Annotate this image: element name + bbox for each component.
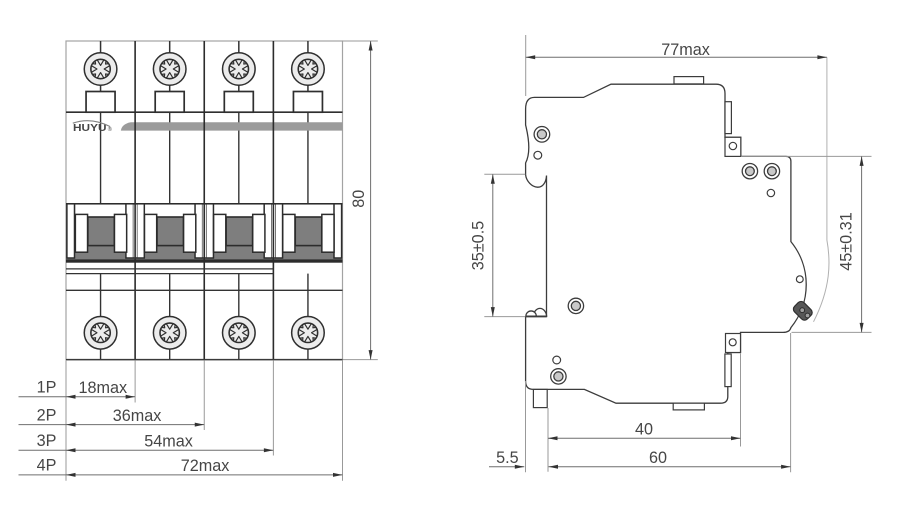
- lower section line: [66, 289, 343, 291]
- bottom right slot: [725, 354, 731, 387]
- bottom extension line 3: [272, 360, 274, 455]
- pole 3 toggle lever right tab: [253, 214, 265, 252]
- pin hole B: [767, 189, 774, 196]
- dimension 18max leader and line: [19, 379, 136, 399]
- top right square outline: [725, 137, 741, 156]
- gray swoosh band: [121, 122, 343, 130]
- pole 1 housing clip right: [126, 204, 134, 258]
- svg-text:18max: 18max: [79, 379, 128, 397]
- svg-text:54max: 54max: [144, 432, 193, 450]
- pole 4 toggle lever right tab: [322, 214, 334, 252]
- pole 1 bottom screw terminal: [84, 317, 117, 350]
- divider white gap in band 1: [133, 205, 136, 258]
- pole 4 toggle top white strip: [283, 205, 334, 217]
- pole 4 toggle lever left tab: [283, 214, 295, 252]
- pole 3 bottom center line: [238, 274, 240, 360]
- pole 3 top screw terminal: [223, 53, 256, 86]
- pole 3 housing clip right: [264, 204, 272, 258]
- svg-text:45±0.31: 45±0.31: [838, 212, 856, 270]
- pole 3 toggle recess window: [226, 217, 253, 246]
- pole 1 top center line: [100, 41, 102, 53]
- svg-text:4P: 4P: [37, 457, 57, 475]
- svg-text:40: 40: [635, 421, 653, 439]
- pole divider 3: [272, 41, 274, 360]
- pole 3 toggle top white strip: [213, 205, 264, 217]
- pole 2 top screw terminal: [153, 53, 186, 86]
- pole 2 toggle recess window: [157, 217, 184, 246]
- dimension 36max leader and line: [19, 406, 205, 426]
- dimension 35±0.5: [470, 174, 526, 316]
- pole 4 bottom screw terminal: [292, 317, 325, 350]
- dimension 72max leader and line: [19, 457, 343, 477]
- pole 2 toggle lever right tab: [184, 214, 196, 252]
- svg-text:80: 80: [350, 190, 368, 208]
- svg-text:77max: 77max: [661, 41, 710, 59]
- pole 3 top center line: [238, 41, 240, 53]
- pole 2 bottom screw terminal: [153, 317, 186, 350]
- svg-text:1P: 1P: [37, 379, 57, 397]
- pole 4 top screw terminal: [292, 53, 325, 86]
- pole 1 toggle recess window: [88, 217, 115, 246]
- HUYU logo: [73, 121, 113, 135]
- dimension 40: [548, 354, 741, 472]
- top right square hole: [729, 142, 736, 149]
- rivet C: [764, 164, 779, 179]
- toggle band thick bottom edge: [66, 259, 343, 262]
- svg-text:5.5: 5.5: [496, 449, 519, 467]
- pin hole C: [553, 356, 561, 364]
- pole 1 toggle lever right tab: [114, 214, 126, 252]
- pole 3 bottom screw terminal: [223, 317, 256, 350]
- DIN slot baseline: [526, 316, 547, 318]
- pole divider 1: [134, 41, 136, 360]
- dimension 77max: [526, 35, 827, 96]
- pole 3 toggle lever left tab: [214, 214, 226, 252]
- lower double line B: [66, 273, 273, 275]
- front view outer body: [66, 41, 343, 360]
- pole 4 housing clip right: [334, 204, 342, 258]
- lower double line A: [66, 268, 273, 270]
- pole 1 terminal clamp rect: [86, 92, 115, 113]
- bottom tab: [673, 403, 704, 410]
- bottom foot: [533, 389, 547, 407]
- pole 1 toggle top white strip: [75, 205, 126, 217]
- svg-text:3P: 3P: [37, 432, 57, 450]
- pole 2 toggle top white strip: [144, 205, 195, 217]
- rivet B: [742, 164, 757, 179]
- pole divider 2: [203, 41, 205, 360]
- pole 4 top center line: [307, 41, 309, 53]
- svg-text:60: 60: [649, 449, 667, 467]
- pin hole D: [796, 276, 803, 283]
- toggle switch band background: [66, 204, 343, 261]
- pole 1 top screw terminal: [84, 53, 117, 86]
- dimension 45±0.31: [741, 156, 872, 332]
- DIN clip bump large: [533, 308, 546, 316]
- pole 2 bottom center line: [169, 274, 171, 360]
- pole 4 bottom center line: [307, 274, 309, 360]
- lever travel arc: [814, 57, 830, 322]
- bottom extension line 2: [203, 360, 205, 430]
- svg-text:36max: 36max: [113, 407, 162, 425]
- rivet D: [568, 298, 583, 313]
- top right slot: [725, 102, 731, 134]
- bottom extension line 0: [65, 360, 67, 481]
- pole 4 terminal clamp rect: [293, 92, 322, 113]
- rivet E: [551, 369, 566, 384]
- divider white gap in band 3: [272, 205, 275, 258]
- bottom extension line 1: [134, 360, 136, 402]
- pole 3 housing clip left: [206, 204, 214, 258]
- dimension 80 extension lines: [343, 40, 378, 42]
- pole 2 toggle lever left tab: [144, 214, 156, 252]
- dimension 80 line: [370, 41, 372, 360]
- dimension 60 and 5.5: [489, 333, 791, 472]
- pole 3 terminal clamp rect: [224, 92, 253, 113]
- bottom extension line 4: [342, 360, 344, 481]
- side view body outline: [526, 84, 807, 403]
- dimension 54max leader and line: [19, 432, 274, 452]
- terminal section divider line: [66, 111, 343, 113]
- pole 1 bottom center line: [100, 274, 102, 360]
- pole 2 housing clip right: [195, 204, 203, 258]
- pole 1 toggle lever left tab: [75, 214, 87, 252]
- top clip tab: [674, 77, 704, 84]
- bottom right square: [726, 334, 741, 353]
- toggle lever: [792, 300, 814, 322]
- pole 2 terminal clamp rect: [155, 92, 184, 113]
- svg-text:35±0.5: 35±0.5: [470, 221, 488, 270]
- rivet A: [534, 127, 550, 143]
- divider white gap in band 2: [203, 205, 206, 258]
- svg-text:2P: 2P: [37, 406, 57, 424]
- svg-text:HUYU: HUYU: [73, 123, 107, 134]
- pin hole A: [534, 151, 542, 159]
- front view bottom edge: [66, 359, 343, 361]
- pole 4 housing clip left: [275, 204, 283, 258]
- pole 2 housing clip left: [137, 204, 145, 258]
- pole 4 toggle recess window: [295, 217, 322, 246]
- DIN clip bump small: [526, 311, 536, 316]
- pole 2 top center line: [169, 41, 171, 53]
- svg-text:72max: 72max: [181, 457, 230, 475]
- pole 1 housing clip left: [67, 204, 75, 258]
